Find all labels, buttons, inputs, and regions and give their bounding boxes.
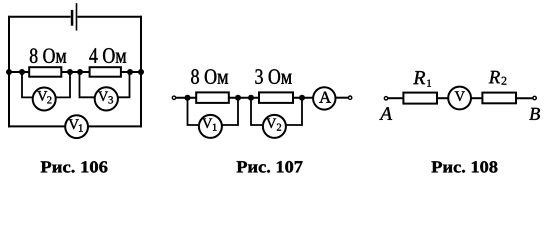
wire: R1 to voltmeter: [437, 97, 448, 99]
label: value 8 Ом of R3: [191, 69, 228, 84]
label: value 4 Ом of R2: [89, 48, 126, 63]
wire: A to R1: [388, 97, 404, 99]
wire: between R3 and R4: [229, 97, 259, 99]
voltmeter V2 letter V: [37, 91, 47, 101]
caption: Рис. 108: [432, 161, 498, 172]
voltmeter V2 body: [33, 88, 56, 111]
wire: fig106 top side, right of battery: [77, 16, 142, 18]
wire: voltmeter to R2: [471, 97, 483, 99]
voltmeter V1 (fig107) letter V: [202, 119, 212, 129]
wire: ammeter to right terminal: [336, 97, 349, 99]
label: node B: [529, 108, 540, 120]
resistor R1 (8 Ом): [29, 67, 61, 77]
voltmeter V1 body: [65, 115, 88, 138]
junction: V2 left tap: [19, 69, 25, 75]
junction: V3 left tap: [77, 69, 83, 75]
wire: fig106 bottom side right: [88, 125, 142, 127]
junction: rail to right frame: [138, 69, 144, 75]
wire: V1 right lead: [222, 98, 238, 125]
label: value 3 Ом of R4: [255, 69, 291, 84]
wire: R4 to ammeter: [293, 97, 313, 99]
junction: rail to left frame: [6, 69, 12, 75]
wire: left lead to R3: [176, 97, 196, 99]
battery GB: long thin plate: [76, 3, 78, 31]
label: node A: [379, 107, 392, 120]
wire: fig106 top side, left of battery: [8, 16, 71, 18]
wire: V2 left lead: [251, 98, 263, 125]
junction: V2 right tap: [299, 95, 305, 101]
wire: V2 left lead: [22, 72, 33, 97]
terminal: fig107 right output: [348, 96, 351, 99]
terminal: node B: [533, 96, 536, 99]
voltmeter V (fig108) letter V: [455, 91, 465, 101]
junction: V3 right tap: [127, 69, 133, 75]
voltmeter V1 (fig107) subscript 1: [213, 124, 217, 131]
resistor R4 (3 Ом): [259, 92, 293, 103]
label: R2 letter R: [489, 71, 500, 83]
resistor R3 (8 Ом): [196, 92, 229, 103]
resistor R2 (4 Ом): [90, 67, 121, 77]
voltmeter V1 subscript 1: [79, 124, 83, 131]
label: R1 subscript 1: [427, 80, 431, 87]
label: R1 letter R: [413, 71, 425, 84]
voltmeter V1 letter V: [69, 119, 79, 129]
wire: V3 right lead: [118, 72, 130, 97]
wire: V2 right lead: [286, 98, 302, 125]
wire: V3 left lead: [80, 72, 95, 97]
wire: V1 left lead: [188, 98, 199, 125]
voltmeter V2 (fig107) subscript 2: [277, 124, 281, 131]
voltmeter V2 (fig107) body: [263, 115, 286, 138]
terminal: fig107 left input: [172, 96, 175, 99]
voltmeter V2 subscript 2: [47, 96, 51, 103]
terminal: node A: [384, 97, 387, 100]
ammeter A body: [313, 87, 335, 109]
wire: fig106 right side: [140, 16, 142, 128]
wire: fig106 left side: [8, 16, 10, 128]
wire: V2 right lead: [56, 72, 70, 97]
wire: fig106 bottom side left: [8, 125, 65, 127]
wire: fig106 middle rail: [9, 71, 141, 73]
label: R2 subscript 2: [502, 77, 507, 85]
junction: V2 right tap: [67, 69, 73, 75]
junction: V1 right tap: [235, 95, 241, 101]
voltmeter V2 (fig107) letter V: [266, 119, 276, 129]
voltmeter V3 body: [95, 87, 118, 110]
caption: Рис. 106: [41, 161, 108, 172]
label: value 8 Ом of R1: [30, 48, 66, 63]
battery GB: short thick plate: [71, 10, 74, 26]
voltmeter V (fig108) body: [448, 87, 471, 110]
voltmeter V3 letter V: [98, 92, 108, 102]
voltmeter V3 subscript 3: [109, 96, 114, 103]
resistor R2 (fig108): [482, 93, 516, 104]
voltmeter V1 (fig107) body: [199, 115, 222, 138]
caption: Рис. 107: [237, 161, 303, 173]
junction: V1 left tap: [185, 95, 191, 101]
ammeter letter A: [319, 92, 331, 103]
resistor R1 (fig108): [403, 93, 437, 104]
junction: V2 left tap: [248, 95, 254, 101]
wire: R2 to B: [516, 97, 532, 99]
